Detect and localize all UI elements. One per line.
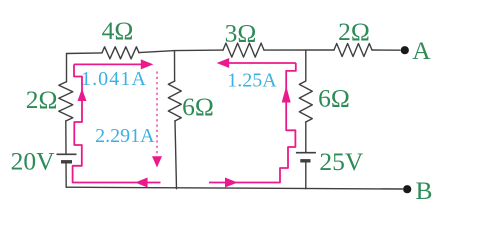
battery 20V short plate [61,160,72,163]
wire middle branch upper [174,51,176,81]
left mesh loop arrowhead left (bottom) [135,178,148,188]
resistor R 4ohm [102,47,139,59]
resistor R 3ohm [223,43,264,57]
battery 20V long plate [57,153,77,155]
right mesh loop arrowhead right (bottom) [225,178,238,188]
svg-text:1.041A: 1.041A [81,68,147,90]
svg-text:6Ω: 6Ω [318,84,350,113]
wire top-left horizontal [67,52,103,55]
svg-text:A: A [412,36,431,65]
svg-text:B: B [415,176,432,205]
svg-text:2Ω: 2Ω [338,17,370,46]
svg-text:6Ω: 6Ω [182,92,214,121]
wire middle branch lower [175,121,177,189]
wire right branch lower [305,161,307,189]
middle branch current dashed line 2.291A [156,72,158,157]
middle branch arrowhead down [152,156,162,167]
resistor R 2ohm left [59,82,73,121]
wire top middle (4ohm to 3ohm) [139,50,223,53]
svg-text:2Ω: 2Ω [26,85,58,114]
right mesh loop arrowhead left (top) [217,58,230,68]
terminal A dot [401,46,409,54]
svg-text:2.291A: 2.291A [95,125,155,147]
terminal B dot [403,185,411,193]
battery 25V long plate [296,152,316,154]
svg-text:1.25A: 1.25A [227,69,277,91]
wire to terminal A [372,49,400,51]
svg-text:20V: 20V [11,147,56,176]
resistor R 6ohm middle [168,81,181,121]
wire top (3ohm to 2ohm) [264,49,334,51]
resistor R 2ohm top [334,44,372,57]
wire left branch upper [66,54,68,83]
left mesh loop arrowhead right [141,59,154,69]
resistor R 6ohm right [299,81,312,122]
svg-text:4Ω: 4Ω [102,16,134,45]
right mesh loop arrowhead up [282,86,291,103]
battery 25V short plate [300,159,310,162]
left mesh loop left side with jogs [73,64,161,182]
left mesh current loop top segment (1.041A direction) [74,63,146,65]
svg-text:25V: 25V [319,147,364,176]
wire left branch lower [65,162,67,187]
right mesh current loop top segment (1.25A direction) [224,62,296,64]
right mesh loop right side with jogs [209,63,296,183]
svg-text:3Ω: 3Ω [225,19,257,48]
wire right branch upper [305,50,307,81]
left mesh loop arrowhead up [78,89,87,102]
wire left branch middle [65,121,67,154]
wire bottom [66,187,402,189]
wire right branch middle [305,122,307,153]
